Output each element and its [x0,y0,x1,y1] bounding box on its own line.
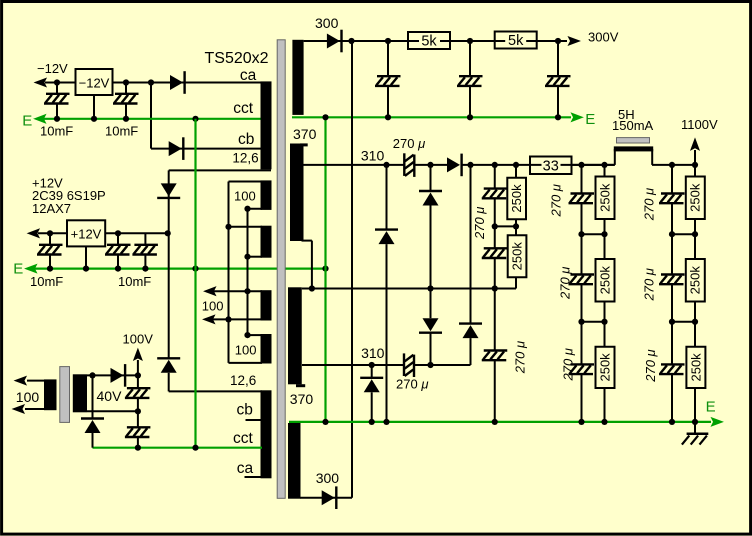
wire colB s4 [604,388,606,422]
wire 100A top tap [229,181,263,183]
svg-text:1100V: 1100V [681,117,718,132]
capacitor C5 10mF [132,245,158,255]
wire cap C5 top stem [144,233,146,245]
diode D13 40V rectifier [111,364,126,387]
junction dot [601,231,607,237]
svg-text:−12V: −12V [79,76,110,91]
capacitor C17 270u [659,194,685,204]
junction dot [115,266,121,272]
winding bar 100 D [261,334,272,364]
arrow 100C top output [205,287,216,295]
capacitor C18 270u [659,275,685,285]
junction dot [467,38,473,44]
wire colC s6 [671,374,673,422]
junction dot [244,254,250,260]
svg-text:E: E [585,111,595,128]
wire cct green bottom [93,447,263,449]
winding bar primary top (ca-12,6) [261,81,272,169]
junction dot [225,316,231,322]
junction dot [123,116,129,122]
wire colC s2 [671,203,673,235]
wire E green rail bottom [289,421,711,423]
diode D7 [375,230,398,245]
junction dot [669,319,675,325]
arrow input top [15,377,26,385]
wire E green rail mid [35,268,326,270]
junction dot [322,114,328,120]
winding bar secondary 370/310 lower [288,287,302,384]
svg-text:250k: 250k [509,242,524,271]
wire colA s2 [581,203,583,235]
junction dot [47,266,53,272]
choke L1 right leg [651,149,653,165]
wire 310 bottom tap [302,364,405,366]
svg-text:10mF: 10mF [40,123,73,138]
halo 5k R1 [419,35,440,47]
stub ca bottom tap [245,476,263,478]
junction dot [115,230,121,236]
junction dot [578,162,584,168]
capacitor C16 270u [569,364,595,374]
wire 100A bottom tap [248,208,263,210]
svg-text:100: 100 [202,299,224,314]
wire 12,6 bottom tap [169,390,262,392]
wire colC s4 [671,284,673,322]
svg-text:250k: 250k [509,184,524,213]
wire cap C2 top stem [125,83,127,95]
junction dot [669,419,675,425]
wire tieCD 235 [672,233,695,235]
capacitor C15 270u [569,275,595,285]
wire colC s3 [671,234,673,275]
wire cap C4 top stem [117,233,119,245]
wire leg x92 down [92,375,94,418]
choke L1 core [617,138,650,143]
wire 12.6V feed vertical [168,170,170,358]
wire cb link vertical [150,83,152,149]
svg-text:300V: 300V [588,30,619,45]
winding bar 100 C (outputs) [261,290,272,320]
svg-text:cct: cct [233,100,254,117]
svg-text:100: 100 [235,343,257,358]
capacitor C19 270u [659,364,685,374]
junction dot [601,162,607,168]
winding bar input primary [44,379,57,410]
junction dot [123,79,129,85]
junction dot [427,285,433,291]
wire 33 to choke [572,164,615,166]
svg-text:250k: 250k [597,353,612,382]
wire colA s5 [581,322,583,365]
junction dot [47,230,53,236]
junction dot [578,231,584,237]
stub cb bottom tap [246,419,263,421]
junction dot [601,319,607,325]
svg-text:40V: 40V [97,388,123,404]
arrow E green mid [26,265,37,273]
wire E green rail top right [292,116,571,118]
junction dot [692,319,698,325]
junction dot [513,223,519,229]
junction dot [427,162,433,168]
wire +12V rail [38,232,168,234]
arrow E green left [35,115,46,123]
halo 33 [542,159,561,172]
junction dot [513,162,519,168]
wire colD s4 [694,388,696,422]
junction dot [135,445,141,451]
capacitor C8 [545,76,571,86]
junction dot green cross [192,266,198,272]
diode D2 cb rectifier [169,137,184,160]
wire leg x470 lower [470,338,472,365]
wire cap C7 stem top [469,41,471,76]
wire U1 ground pin [93,95,95,119]
svg-text:270 μ: 270 μ [642,268,657,301]
svg-text:270 μ: 270 μ [642,188,657,221]
capacitor C6 [375,76,401,86]
wire col494 s2 [494,198,496,226]
wire ground stem [694,422,696,434]
wire 300V rail [304,40,567,42]
wire colC s5 [671,322,673,365]
svg-text:E: E [13,260,23,277]
capacitor C11 270u [482,189,508,199]
wire col494 s3 [494,226,496,248]
resistor R6 250k box [596,177,615,220]
wire cap C4 bottom stem [117,255,119,269]
wire green vertical E link [324,117,326,422]
arrow 300V output [569,37,580,45]
arrow input bottom [13,405,24,413]
capacitor C10 270u series [404,353,414,377]
wire col494 s1 [494,165,496,189]
transformer core main [277,40,285,499]
svg-text:E: E [22,112,32,129]
wire colA s1 [581,165,583,194]
junction dot [135,372,141,378]
svg-text:100: 100 [234,188,256,203]
diode D3 on 12.6 feed [157,183,180,198]
junction dot [578,419,584,425]
svg-text:5k: 5k [421,34,437,50]
svg-text:270 μ: 270 μ [396,377,428,392]
capacitor C21 40V filter [125,427,150,437]
svg-text:cct: cct [233,430,254,447]
junction dot [192,445,198,451]
wire col494 s6 [494,360,496,422]
junction dot [54,116,60,122]
wire col516 s2 [515,219,517,226]
svg-text:300: 300 [315,15,339,31]
wire colA s6 [581,374,583,422]
junction dot [83,266,89,272]
junction dot [54,79,60,85]
svg-text:5k: 5k [508,33,524,49]
wire corner x516 up [515,277,517,288]
wire cap C2 bottom stem [125,104,127,119]
arrow -12V output [35,78,46,86]
junction dot [89,372,95,378]
wire stub bar9 bottom [302,240,312,242]
wire cap C1 bottom stem [56,104,58,119]
wire tieAB 235 [582,233,605,235]
regulator U1 -12V box [76,69,113,95]
resistor R5 250k box [508,235,527,277]
diode D4 on 12.6 feed [157,358,180,373]
svg-text:310: 310 [361,345,385,361]
junction dot [467,162,473,168]
capacitor C12 270u [482,248,508,258]
wire leg x371 lower [371,392,373,422]
diode D10 [459,324,482,339]
wire 310 top tap segment [304,164,405,166]
svg-text:10mF: 10mF [105,123,138,138]
stub 370 lower finger [296,384,305,387]
wire E green rail top-left [44,118,262,120]
wire col516 s1 [515,165,517,178]
wire leg x386 lower [386,244,388,422]
svg-text:−12V: −12V [37,61,68,76]
junction dot [492,223,498,229]
wire colD s2 [694,219,696,259]
winding bar secondary 370/310 upper [290,144,304,242]
junction dot [555,114,561,120]
winding bar 100 B [261,226,272,258]
junction dot [427,362,433,368]
wire cap C3 bottom stem [49,255,51,269]
diode D6 series [447,154,462,177]
junction dot [369,362,375,368]
wire leg x371 upper [371,365,373,378]
wire 100B bottom tap [248,256,263,258]
wire cap C6 stem top [387,41,389,76]
capacitor C20 40V filter [125,388,150,398]
wire input bottom tap [25,408,44,410]
svg-text:250k: 250k [688,266,703,295]
svg-text:+12V: +12V [71,227,102,242]
wire link x311 [311,241,313,289]
junction dot [467,114,473,120]
winding bar secondary bottom 300 [288,423,301,499]
wire choke to 1100V [652,164,695,166]
junction dot [383,162,389,168]
diode D12 300 bottom rectifier [322,486,337,509]
svg-text:270 μ: 270 μ [549,184,564,217]
svg-text:12,6: 12,6 [230,373,256,388]
wire col516 s2b [515,226,517,235]
capacitor C3 10mF [37,245,63,255]
arrow 1100V output [691,139,699,150]
wire 100B top tap [229,226,263,228]
wire leg x430 upper [430,165,432,191]
wire 100C bottom tap [205,318,262,320]
diode D14 [81,419,104,434]
svg-text:cb: cb [237,401,253,418]
resistor R11 250k box [686,347,705,388]
wire colB s2 [604,219,606,259]
wire 100C top tap [206,290,262,292]
wire green vertical cct link [194,119,196,448]
wire leg x470 [470,165,472,324]
svg-text:10mF: 10mF [30,274,63,289]
wire input top tap [27,380,44,382]
svg-text:ca: ca [237,460,254,477]
junction dot [348,38,354,44]
diode D11 [360,378,383,393]
wire 300 link vertical x352 [351,41,353,498]
winding bar 100 A [261,180,272,210]
wire 12,6 top tap [169,169,271,171]
svg-text:270 μ: 270 μ [561,348,576,381]
wire leg x92 to E [92,433,94,448]
resistor R3 33 box [530,157,572,175]
junction dot [322,419,328,425]
wire tieAB 321 [582,321,605,323]
wire left vertical x247 [247,209,249,335]
wire 40V bottom tap [87,410,138,412]
wire colC s1 [671,165,673,194]
junction dot [309,285,315,291]
junction dot [601,419,607,425]
junction dot [148,79,154,85]
resistor R4 250k box [507,178,526,220]
wire 12.6 feed lower [168,373,170,392]
arrow 100V output [134,349,142,360]
svg-text:ca: ca [240,67,257,84]
junction dot [244,332,250,338]
junction dot green vertical end [322,266,328,272]
resistor R1 5k box [408,32,450,49]
svg-text:310: 310 [361,147,385,163]
resistor R2 5k box [495,32,537,49]
junction dot [555,38,561,44]
svg-text:TS520x2: TS520x2 [205,50,269,67]
wire U2 ground pin [85,246,87,268]
junction dot [244,206,250,212]
wire tie 222 [495,225,516,227]
wire left vertical x228 foot [229,362,263,364]
winding bar secondary top 300 [292,40,303,115]
wire 300 bottom tap [300,497,352,499]
regulator U2 +12V box [67,220,105,246]
svg-text:250k: 250k [688,353,703,382]
svg-text:33: 33 [543,159,559,175]
svg-text:250k: 250k [597,266,612,295]
junction dot [244,288,250,294]
wire cap C21 stem2 [137,437,139,448]
wire colD s1 [694,165,696,177]
wire 310 bottom after cap [414,364,471,366]
wire leg x430 mid [430,206,432,319]
junction dot [135,408,141,414]
arrow 100C bottom output [204,315,215,323]
junction dot [669,162,675,168]
junction dot [142,266,148,272]
svg-text:10mF: 10mF [118,274,151,289]
wire colD s3 [694,302,696,347]
resistor R9 250k box [686,177,705,220]
junction dot [669,231,675,237]
wire cap C8 stem top [557,41,559,76]
wire leg x386 upper [386,165,388,230]
junction dot [692,231,698,237]
wire colB s1 [604,165,606,177]
wire cap C5 bottom stem [144,255,146,269]
svg-text:270 μ: 270 μ [472,207,487,240]
svg-text:12AX7: 12AX7 [32,201,71,216]
wire rail 370 mid [302,288,516,290]
wire cap C21 stem [137,411,139,427]
svg-text:100V: 100V [123,332,154,347]
svg-text:250k: 250k [597,183,612,212]
wire col494 s4 [494,258,496,289]
svg-text:270 μ: 270 μ [643,349,658,382]
svg-text:12,6: 12,6 [232,151,258,166]
wire 100D top tap [248,334,263,336]
junction dot [578,319,584,325]
capacitor C4 10mF [105,245,131,255]
wire 40V top tap [87,374,138,376]
wire cap C8 stem bottom [557,86,559,117]
junction dot green vertical [192,116,198,122]
stub 370 upper finger [300,143,308,146]
transformer core input [60,367,70,423]
junction dot [385,38,391,44]
wire -12V rail / ca [45,82,262,84]
wire tieCD 321 [672,321,695,323]
diode D5 300 top rectifier [327,30,342,53]
winding bar input secondary 40V [73,374,87,412]
wire cap C1 top stem [56,83,58,95]
wire col494 s5 [494,289,496,351]
wire after D6 [462,164,615,166]
wire cap C6 stem bottom [387,86,389,117]
svg-text:150mA: 150mA [612,118,654,133]
wire leg x430 lower [430,333,432,365]
svg-text:250k: 250k [688,183,703,212]
capacitor C13 270u [482,351,508,361]
junction dot [383,419,389,425]
resistor R10 250k box [686,259,705,302]
junction dot [692,419,698,425]
wire cap C7 stem bottom [469,86,471,117]
arrow E green bottom right [712,418,723,426]
svg-text:cb: cb [238,131,254,148]
junction dot [692,162,698,168]
svg-text:E: E [706,399,716,416]
capacitor C9 270u series [404,153,414,177]
wire cap C3 top stem [49,233,51,245]
wire 100V riser [137,360,139,375]
svg-text:270 μ: 270 μ [513,341,528,374]
capacitor C2 10mF [113,94,139,104]
arrow E green right [572,113,583,121]
choke L1 left leg [614,149,616,165]
resistor R7 250k box [596,259,615,302]
junction dot [165,230,171,236]
svg-text:370: 370 [290,391,314,407]
wire cb tap [151,148,262,150]
arrow +12V output [28,229,39,237]
svg-text:300: 300 [316,470,340,486]
svg-text:370: 370 [293,126,317,142]
wire after C9 [414,164,447,166]
wire left vertical x228 [228,182,230,363]
junction dot [385,114,391,120]
svg-text:100: 100 [16,389,40,405]
svg-text:270 μ: 270 μ [393,136,425,151]
